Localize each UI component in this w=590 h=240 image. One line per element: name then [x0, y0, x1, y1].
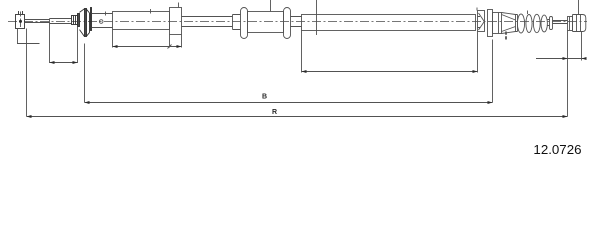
- crimp sleeve: [568, 17, 573, 31]
- conduit tick mark: [150, 9, 152, 14]
- grommet ring 2: [284, 8, 291, 39]
- clevis pin vertical centerline: [20, 12, 22, 29]
- washer: [78, 14, 80, 27]
- thin rod: [25, 20, 50, 23]
- barrel nipple: [573, 15, 586, 32]
- adjusting nut: [72, 16, 78, 25]
- svg-text:12.0726: 12.0726: [533, 142, 581, 157]
- svg-text:R: R: [272, 109, 277, 116]
- inner cable section 2: [182, 17, 233, 27]
- bellows bump 3: [533, 14, 540, 32]
- grommet ring 1: [241, 8, 248, 39]
- tube hole: [99, 20, 103, 24]
- neck: [548, 20, 550, 26]
- long conduit tube: [302, 15, 476, 31]
- inner cable section 3: [291, 17, 302, 27]
- dimension B extension lines: [85, 40, 493, 103]
- crimp tick mark: [476, 8, 478, 11]
- bellows tick mark: [527, 11, 529, 15]
- collar: [233, 15, 241, 30]
- dimension R line: [27, 29, 568, 119]
- grommet flange plate: [85, 9, 87, 37]
- bellows bump 1: [517, 14, 524, 33]
- housing taper: [502, 13, 518, 34]
- bellows bump 4: [541, 15, 547, 32]
- leader line to barrel: [578, 0, 580, 15]
- adjuster block tick: [178, 3, 180, 8]
- dashed stub below housing: [505, 32, 507, 41]
- bellows bump 2: [526, 15, 532, 33]
- dimension conduit 1: [113, 30, 182, 49]
- leader line to grommet: [270, 0, 272, 12]
- dimension B line: [85, 101, 493, 104]
- firewall grommet spool cone left: [80, 9, 85, 37]
- adjuster block: [170, 8, 182, 35]
- dimension right end small: [536, 31, 587, 117]
- tube tick mark: [105, 12, 107, 16]
- centerline of cable axis: [8, 21, 587, 23]
- outlet tube: [92, 14, 113, 28]
- svg-text:B: B: [262, 94, 267, 101]
- dimension long tube: [302, 31, 478, 74]
- mounting plate: [488, 10, 493, 37]
- conduit sleeve 1: [113, 12, 170, 30]
- dimension small rod length: [50, 24, 78, 65]
- end disc: [550, 17, 553, 30]
- clevis strap below: [17, 29, 40, 44]
- clevis end fitting body: [16, 11, 25, 29]
- leader line crossing tube: [316, 0, 318, 35]
- clevis pin dot: [19, 20, 22, 23]
- grommet spool cone right: [87, 9, 90, 36]
- crimp fitting with cross pattern: [478, 11, 485, 32]
- threaded rod: [50, 19, 72, 24]
- grommet outlet plate: [91, 8, 92, 31]
- spring housing: [493, 13, 502, 34]
- thin cable to barrel: [553, 21, 568, 24]
- grommet cylinder: [248, 12, 284, 33]
